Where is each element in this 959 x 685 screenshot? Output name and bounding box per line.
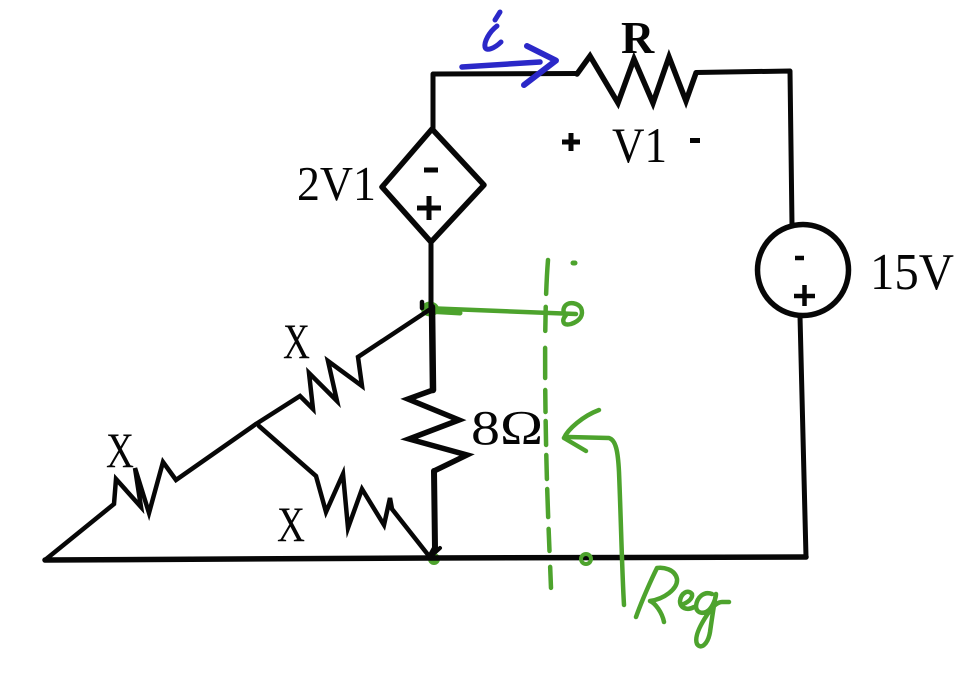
svg-text:2V1: 2V1 (297, 156, 376, 211)
svg-text:X: X (283, 313, 310, 369)
svg-text:R: R (621, 12, 655, 63)
svg-text:V1: V1 (612, 117, 667, 173)
svg-text:8Ω: 8Ω (471, 400, 543, 455)
svg-text:X: X (277, 496, 305, 552)
svg-text:15V: 15V (870, 244, 954, 301)
svg-text:X: X (106, 422, 134, 478)
